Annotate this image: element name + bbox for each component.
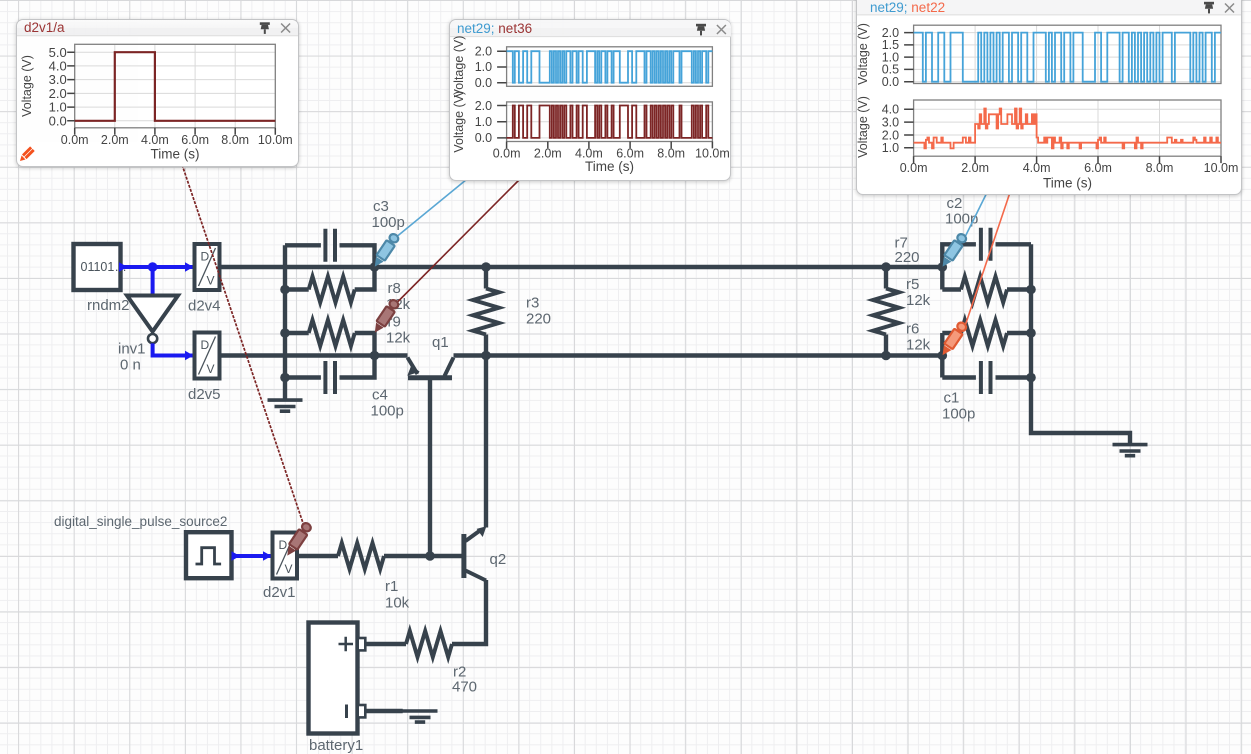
D-to-V converter d2v5: [188, 333, 221, 404]
svg-text:6.0m: 6.0m: [1084, 161, 1112, 175]
svg-text:100p: 100p: [372, 214, 405, 231]
svg-text:net29; net22: net29; net22: [870, 0, 945, 15]
voltage probe (net29 at c2 junction, blue): [938, 232, 968, 269]
ground (left rail): [268, 378, 303, 412]
svg-text:d2v1: d2v1: [263, 584, 296, 601]
svg-text:V: V: [285, 562, 293, 576]
svg-text:0.0: 0.0: [474, 131, 491, 145]
junction node (net22/r6/c1): [938, 351, 948, 361]
svg-text:10.0m: 10.0m: [258, 133, 293, 147]
junction node (rndm2 output branch): [148, 262, 158, 272]
svg-text:220: 220: [895, 249, 920, 266]
svg-text:V: V: [207, 274, 215, 288]
svg-text:q1: q1: [432, 334, 449, 351]
svg-text:c1: c1: [944, 390, 960, 407]
transistor q1 (PNP): [407, 334, 453, 378]
svg-text:12k: 12k: [906, 337, 931, 354]
svg-text:c2: c2: [947, 195, 963, 212]
svg-text:0.0m: 0.0m: [61, 133, 89, 147]
junction node (right rail/c1): [1026, 373, 1036, 383]
junction node (net22/r7): [881, 351, 891, 361]
probe link line (net22 chart to r6 probe): [966, 193, 1011, 325]
resistor r7 220: [873, 235, 920, 356]
svg-text:V: V: [207, 362, 215, 376]
pulse source digital_single_pulse_source2: [54, 514, 232, 578]
svg-text:1.0: 1.0: [49, 100, 67, 115]
svg-text:4.0m: 4.0m: [1023, 161, 1051, 175]
transistor q2 (NPN): [464, 526, 506, 580]
plot area (net22 stepped waveform, orange): [856, 96, 1239, 190]
junction node (r3/q1 collector/q2 emitter): [481, 351, 491, 361]
junction node (net29/c2/r5): [938, 262, 948, 272]
svg-text:0.0: 0.0: [49, 113, 67, 128]
svg-text:r8: r8: [388, 280, 401, 297]
svg-text:rndm2: rndm2: [87, 297, 130, 314]
svg-text:10k: 10k: [385, 595, 410, 612]
probe link line (net29 chart to c2 probe): [966, 193, 988, 237]
svg-text:0 n: 0 n: [120, 357, 141, 374]
svg-text:d2v1/a: d2v1/a: [24, 20, 65, 35]
svg-text:6.0m: 6.0m: [181, 133, 209, 147]
svg-text:2.0m: 2.0m: [961, 161, 989, 175]
probe link line (net36 chart to r9 probe): [398, 180, 520, 302]
svg-text:0.0m: 0.0m: [900, 161, 928, 175]
capacitor c1 100p: [942, 356, 1031, 423]
wire (inv1 output to d2v5, blue digital net): [153, 343, 194, 360]
junction node (net36/r9/c4): [370, 351, 380, 361]
svg-text:r6: r6: [906, 321, 919, 338]
svg-text:100p: 100p: [942, 406, 975, 423]
probe link line (net29 chart to c3 probe): [398, 180, 467, 237]
plot area (net29 digital waveform, blue): [451, 36, 712, 98]
svg-text:Time (s): Time (s): [585, 159, 634, 174]
svg-text:2.0: 2.0: [474, 99, 491, 113]
svg-text:D: D: [201, 250, 210, 264]
svg-text:8.0m: 8.0m: [221, 133, 249, 147]
inverter inv1: [118, 296, 178, 374]
junction node (rail/c4/ground): [280, 373, 290, 383]
edit-signal pencil icon: [18, 146, 35, 163]
chart window net29; net22: [856, 0, 1242, 195]
chart window net29; net36: [449, 19, 731, 181]
ground (right rail): [1113, 445, 1148, 456]
voltage probe (net36 at r9, maroon): [371, 298, 401, 335]
svg-text:2.0m: 2.0m: [533, 146, 561, 160]
wire net36 (lower rail from d2v5 to q1 emitter): [219, 353, 408, 357]
svg-text:digital_single_pulse_source2: digital_single_pulse_source2: [54, 514, 227, 529]
svg-text:2.0: 2.0: [474, 45, 491, 59]
wire net22 (lower rail from q1 collector to right network): [454, 353, 943, 357]
svg-text:inv1: inv1: [118, 341, 146, 358]
capacitor c4 100p: [285, 356, 404, 420]
svg-text:470: 470: [452, 679, 477, 696]
svg-text:3.0: 3.0: [49, 72, 67, 87]
svg-text:5.0: 5.0: [49, 45, 67, 60]
resistor r2 470: [366, 631, 477, 696]
resistor r3 220: [473, 267, 551, 356]
voltage probe (net22 at r6 junction, orange): [938, 321, 968, 358]
random bit source rndm2: [74, 244, 130, 314]
svg-text:Time (s): Time (s): [151, 147, 200, 162]
svg-text:Voltage (V): Voltage (V): [857, 96, 870, 158]
junction node (right rail/r6): [1026, 328, 1036, 338]
capacitor c2 100p: [942, 195, 1031, 267]
wire (pulse source to d2v1, blue digital net): [232, 551, 273, 561]
svg-text:D: D: [279, 538, 288, 552]
svg-text:0.0: 0.0: [882, 75, 899, 89]
junction node (net29/c3/r8): [370, 262, 380, 272]
junction node (right rail/r5): [1026, 285, 1036, 295]
resistor r5 12k: [906, 267, 1031, 309]
resistor r9 12k: [285, 314, 411, 356]
svg-text:1.0: 1.0: [882, 141, 899, 155]
wire (q2 collector down to r2): [452, 580, 486, 644]
svg-text:4.0: 4.0: [49, 59, 67, 74]
wire (branch down to inverter inv1): [151, 267, 155, 296]
svg-text:4.0: 4.0: [882, 103, 899, 117]
wire (q1 base down to r1/q2 node): [428, 380, 432, 557]
svg-text:10.0m: 10.0m: [695, 146, 730, 160]
capacitor c3 100p: [285, 198, 405, 267]
voltage probe (net29 at c3 junction, blue): [371, 232, 401, 269]
svg-text:d2v5: d2v5: [188, 386, 221, 403]
junction node (net29/r3): [481, 262, 491, 272]
wire net29 (top horizontal rail from d2v4): [219, 265, 942, 269]
svg-text:net29; net36: net29; net36: [457, 21, 532, 36]
wire (q1 collector node down to q2 emitter): [484, 356, 488, 528]
plot area (net36 digital waveform, maroon): [451, 91, 729, 174]
svg-text:2.0: 2.0: [49, 86, 67, 101]
svg-text:Voltage (V): Voltage (V): [451, 91, 465, 153]
svg-text:8.0m: 8.0m: [657, 146, 685, 160]
svg-text:0.0m: 0.0m: [492, 146, 520, 160]
wire (right vertical rail to ground): [1031, 244, 1130, 443]
svg-text:D: D: [201, 338, 210, 352]
svg-text:3.0: 3.0: [882, 115, 899, 129]
plot area (pulse waveform d2v1/a): [20, 44, 293, 161]
svg-text:c4: c4: [372, 387, 388, 404]
svg-text:d2v4: d2v4: [188, 298, 221, 315]
svg-text:battery1: battery1: [309, 737, 363, 754]
svg-text:Voltage (V): Voltage (V): [20, 55, 34, 117]
svg-text:r5: r5: [906, 276, 919, 293]
svg-text:1.0: 1.0: [474, 115, 491, 129]
svg-text:0.0: 0.0: [474, 76, 491, 90]
svg-text:12k: 12k: [386, 330, 411, 347]
svg-text:Time (s): Time (s): [1043, 176, 1092, 191]
probe link line (d2v1/a chart to d2v1 probe, dashed): [182, 165, 304, 525]
junction node (rail/r9): [280, 328, 290, 338]
wire (rndm2 output to d2v4, blue digital net): [119, 262, 194, 272]
resistor r1 10k: [297, 543, 462, 612]
svg-text:220: 220: [526, 311, 551, 328]
svg-text:r1: r1: [385, 578, 398, 595]
resistor r8 12k: [285, 267, 411, 313]
svg-text:12k: 12k: [906, 292, 931, 309]
D-to-V converter d2v1: [263, 533, 297, 602]
svg-text:4.0m: 4.0m: [141, 133, 169, 147]
svg-text:100p: 100p: [371, 403, 404, 420]
svg-text:q2: q2: [490, 551, 507, 568]
ground (battery): [403, 711, 438, 722]
svg-text:8.0m: 8.0m: [1146, 161, 1174, 175]
battery battery1: [309, 623, 366, 754]
svg-text:2.0m: 2.0m: [101, 133, 129, 147]
svg-text:r3: r3: [526, 295, 539, 312]
wire (left vertical rail): [283, 245, 287, 377]
chart window d2v1/a: [16, 19, 299, 167]
junction node (r1/q1 base/q2 base): [425, 551, 435, 561]
D-to-V converter d2v4: [188, 244, 221, 315]
plot area (net29 digital waveform, blue): [856, 23, 1221, 89]
svg-text:c3: c3: [373, 198, 389, 215]
svg-text:Voltage (V): Voltage (V): [451, 36, 465, 98]
voltage probe (d2v1/a at d2v1, maroon): [283, 521, 313, 558]
wire (battery negative to ground): [366, 709, 403, 713]
junction node (net29/r7): [881, 262, 891, 272]
junction node (rail/r8): [280, 285, 290, 295]
svg-text:1.0: 1.0: [474, 60, 491, 74]
svg-text:10.0m: 10.0m: [1204, 161, 1239, 175]
svg-text:Voltage (V): Voltage (V): [857, 23, 870, 85]
resistor r6 12k: [906, 320, 1031, 356]
